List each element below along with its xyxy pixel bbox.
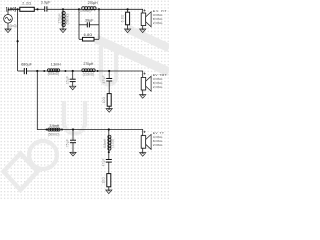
wire L4 to speaker [95, 71, 143, 77]
wire bus corner to C3 [18, 70, 24, 72]
capacitor C1 3.9uF [45, 6, 47, 11]
ground R4 [106, 109, 112, 113]
ground C4 [70, 86, 76, 90]
watermark diagonal band 2 [128, 29, 169, 48]
wire bus top-to-mid [17, 9, 19, 71]
svg-text:2 Ohm: 2 Ohm [153, 85, 163, 89]
bus mid junction dot [17, 40, 19, 42]
shunt capacitor C4 [72, 71, 74, 79]
resistor R2 6.8 ohm [79, 38, 83, 40]
svg-text:2 Ohm: 2 Ohm [153, 21, 163, 25]
svg-text:(1mΩ): (1mΩ) [9, 24, 16, 28]
ground R3 [125, 29, 131, 33]
watermark [4, 29, 170, 190]
mid ground [142, 90, 144, 95]
svg-text:2 Ohm: 2 Ohm [153, 143, 163, 147]
node shunt R3 [127, 8, 129, 10]
watermark letter U low [64, 101, 85, 134]
ground C6 [70, 152, 76, 156]
mid plus mark [144, 72, 146, 74]
node shunt C4 [72, 70, 74, 72]
tweeter plus mark [144, 9, 146, 11]
resistor R1 2.2 ohm [20, 7, 35, 11]
resistor R4 10 ohm [107, 94, 111, 107]
svg-text:(1.1Ω): (1.1Ω) [111, 139, 115, 148]
wire source bottom [7, 23, 9, 29]
inductor L2 270uH [79, 8, 99, 10]
shunt inductor L1 [62, 9, 64, 11]
svg-text:3.9mH: 3.9mH [49, 124, 59, 128]
wire C1 to shunt L node [47, 8, 79, 10]
node dot [108, 151, 110, 153]
wire C3 to L3 [27, 70, 48, 72]
node IN junction [17, 8, 19, 10]
shunt inductor L6 [108, 130, 110, 136]
wire bus mid-to-low [37, 71, 48, 130]
node shunt L [62, 8, 64, 10]
inductor L4 270uH [82, 70, 95, 72]
svg-text:1.3mH: 1.3mH [51, 62, 61, 66]
speaker tweeter [141, 12, 151, 27]
svg-text:2.2Ω: 2.2Ω [22, 2, 31, 6]
svg-text:270µH: 270µH [88, 1, 98, 5]
node dot [36, 8, 38, 10]
AC source V1 [4, 14, 13, 23]
svg-text:(470mΩ): (470mΩ) [79, 9, 91, 13]
svg-text:6.8Ω: 6.8Ω [84, 33, 93, 37]
node dot [64, 70, 66, 72]
wire L3 to shunt C4 [59, 70, 82, 72]
inductor L3 1.3mH [47, 70, 59, 72]
node right rail [98, 8, 100, 10]
svg-text:270µH: 270µH [58, 13, 62, 24]
wire group to R3 node [99, 9, 143, 13]
left rail wire [78, 9, 80, 39]
svg-text:(560mΩ): (560mΩ) [48, 132, 60, 136]
svg-text:680µF: 680µF [21, 63, 32, 67]
node to woofer branch [36, 70, 38, 72]
node dot [97, 70, 99, 72]
svg-text:39µF: 39µF [85, 19, 94, 23]
right rail wire [98, 9, 100, 39]
svg-text:[100]: [100] [6, 7, 17, 12]
ground source [5, 29, 11, 33]
speaker woofer [141, 134, 151, 149]
wire L5 to C6 node [60, 130, 143, 136]
svg-text:6.8Ω: 6.8Ω [120, 14, 124, 22]
svg-text:6.8mH: 6.8mH [103, 138, 107, 148]
svg-text:3.9µF: 3.9µF [41, 0, 51, 4]
capacitor C2 39uF [79, 24, 87, 26]
svg-text:270µH: 270µH [83, 62, 93, 66]
speaker mid [141, 76, 151, 91]
tweeter ground [142, 26, 144, 29]
capacitor C7 [106, 160, 112, 163]
svg-text:47µF: 47µF [102, 75, 106, 83]
svg-text:(310mΩ): (310mΩ) [83, 72, 95, 76]
node shunt C6 [72, 128, 74, 130]
ground shunt L1 [60, 29, 66, 33]
node dot [61, 129, 63, 131]
shunt capacitor C5 [108, 71, 110, 78]
ground R5 [106, 190, 112, 194]
svg-text:75µF: 75µF [66, 139, 70, 147]
shunt resistor R3 6.8 ohm [127, 9, 129, 12]
watermark diamond [4, 154, 38, 191]
svg-text:10Ω: 10Ω [102, 96, 106, 103]
woofer ground [142, 148, 144, 152]
inductor L5 3.9mH [48, 129, 60, 131]
node shunt LCR [108, 128, 110, 130]
wire to R1 [18, 8, 20, 10]
node dot [46, 129, 48, 131]
resistor R5 10 ohm [107, 174, 111, 187]
svg-text:(550mΩ): (550mΩ) [48, 72, 60, 76]
woofer plus mark [144, 131, 146, 133]
capacitor C3 680uF [24, 68, 26, 74]
watermark letter O [29, 141, 57, 169]
watermark diagonal band [96, 39, 169, 72]
shunt capacitor C6 [72, 130, 74, 140]
svg-text:10Ω: 10Ω [102, 177, 106, 184]
watermark letter U high [101, 46, 116, 85]
svg-text:(560mΩ): (560mΩ) [66, 14, 70, 25]
node shunt RC [108, 70, 110, 72]
svg-text:47µF: 47µF [101, 158, 105, 166]
node left rail [78, 8, 80, 10]
svg-text:15µF: 15µF [65, 76, 69, 84]
wire source top [8, 9, 18, 14]
wire R1 to C1 [34, 8, 44, 10]
node dot [43, 70, 45, 72]
